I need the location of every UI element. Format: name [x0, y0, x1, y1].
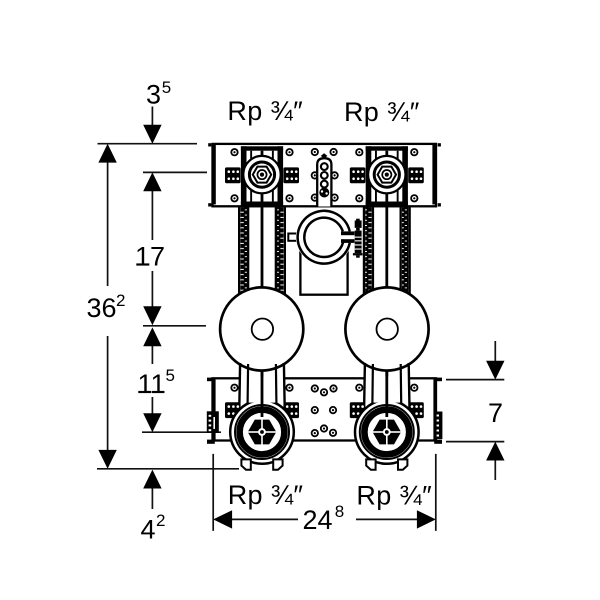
big circles [220, 287, 428, 370]
rail outline [213, 144, 437, 206]
arrow down to top edge (3-5) [143, 125, 161, 144]
dim 7 ref line bottom y=441.6 [446, 441, 504, 443]
arrow down to feet line (36-2) [98, 450, 116, 469]
right fitting side blocks [350, 167, 366, 183]
central bolt field [312, 385, 318, 391]
arrow up to fitting axis (17) [143, 172, 161, 191]
right bottom fitting [355, 400, 419, 470]
svg-text:Rp ¾″: Rp ¾″ [227, 96, 303, 126]
central strap [317, 153, 331, 206]
dim 24-8 extension line left [212, 454, 214, 531]
left fitting side blocks [225, 167, 241, 183]
svg-text:Rp ¾″: Rp ¾″ [356, 480, 432, 510]
arrow down to circle axis (17) [143, 306, 161, 325]
ref line feet bottom y=468.8 [97, 468, 239, 470]
svg-text:5: 5 [162, 78, 171, 97]
right fitting corner bolts [356, 149, 362, 155]
left fitting inlet channels [239, 363, 284, 417]
dim 11-5 vertical line upper [151, 346, 153, 365]
arrow right (24-8) [417, 510, 436, 528]
svg-text:7: 7 [488, 398, 503, 428]
left fitting valve circles [243, 156, 280, 193]
left end bracket [212, 379, 216, 441]
arrow up to rail bottom (7) [486, 442, 504, 461]
ref line top fitting axis y=172.4 [143, 171, 207, 173]
dim 36-2 vertical line upper [107, 161, 109, 286]
dim 24-8 extension line right [435, 454, 437, 531]
right mounting disc [345, 287, 428, 370]
arrow up to top edge (36-2) [98, 144, 116, 163]
svg-text:2: 2 [116, 291, 125, 310]
right end bracket [432, 145, 436, 204]
left mounting disc [220, 287, 303, 370]
right fitting inlet channels [364, 363, 409, 417]
mounting box below clamp [300, 249, 347, 295]
arrow down to rail top (7) [486, 361, 504, 380]
arrow up to circle axis (11-5) [143, 327, 161, 346]
left fitting side blocks [225, 402, 241, 418]
svg-text:3: 3 [146, 80, 161, 110]
left end bracket [212, 145, 216, 204]
clamp inner ring arc [304, 218, 343, 257]
right end bracket [433, 379, 437, 441]
clamp lower jaw [341, 239, 355, 243]
dim 17 vertical line upper [151, 190, 153, 240]
left fitting plate [241, 146, 283, 206]
left fitting corner bolts [231, 149, 237, 155]
clamp screw [353, 219, 363, 258]
clamp upper jaw [341, 231, 355, 235]
svg-text:Rp ¾″: Rp ¾″ [344, 97, 420, 127]
dim 36-2 vertical line lower [107, 336, 109, 452]
clamp body disc [296, 209, 352, 265]
svg-text:11: 11 [138, 369, 166, 399]
rail outline [213, 378, 437, 440]
ref line top edge y=143.7 [98, 143, 198, 145]
left spring clip [207, 411, 219, 433]
central strap bolts [312, 149, 318, 155]
bottom rail [207, 363, 443, 470]
svg-text:Rp ¾″: Rp ¾″ [228, 480, 304, 510]
left bottom fitting [230, 400, 294, 470]
svg-text:36: 36 [87, 293, 117, 323]
top rail [208, 143, 441, 206]
dim 24-8 line right part [356, 518, 419, 520]
dim 7 vertical line lower [494, 459, 496, 480]
left column rods (cx=262) [238, 151, 286, 401]
left disc center hole [252, 319, 273, 340]
svg-text:5: 5 [166, 366, 175, 385]
pipe clamp assembly [288, 209, 362, 295]
right fitting rail bolts [356, 385, 362, 391]
dim 7 ref line top y=379.6 [446, 379, 504, 381]
right fitting valve circles [368, 156, 405, 193]
arrow up to feet line (4-2) [143, 470, 161, 489]
svg-text:4: 4 [141, 515, 156, 545]
right fitting plate [366, 146, 408, 206]
svg-text:24: 24 [303, 505, 333, 535]
dim 3-5 vertical line [151, 107, 153, 127]
right disc center hole [377, 319, 398, 340]
ref line bottom fitting axis y=431.2 [142, 431, 221, 433]
left fitting rail bolts [231, 385, 237, 391]
dim 17 vertical line lower [151, 271, 153, 308]
ref line big-circle axis y=325.8 [143, 325, 206, 327]
vertical rod columns [238, 151, 411, 401]
right column rods (cx=386.8) [363, 151, 411, 401]
dim 7 vertical line upper [494, 341, 496, 362]
clamp outer ring arc [298, 211, 350, 264]
dim 4-2 vertical line [151, 488, 153, 509]
dim 24-8 line left part [230, 518, 298, 520]
right spring clip [434, 412, 443, 440]
svg-text:2: 2 [156, 511, 165, 530]
svg-text:8: 8 [335, 502, 344, 521]
feet [366, 459, 375, 469]
arrow left (24-8) [213, 510, 232, 528]
arrow down to bottom fitting axis (11-5) [143, 413, 161, 432]
feet [241, 459, 250, 469]
svg-text:17: 17 [135, 242, 165, 272]
right fitting side blocks [350, 402, 366, 418]
dim 11-5 vertical line lower [151, 397, 153, 414]
clamp left tab [288, 234, 298, 241]
